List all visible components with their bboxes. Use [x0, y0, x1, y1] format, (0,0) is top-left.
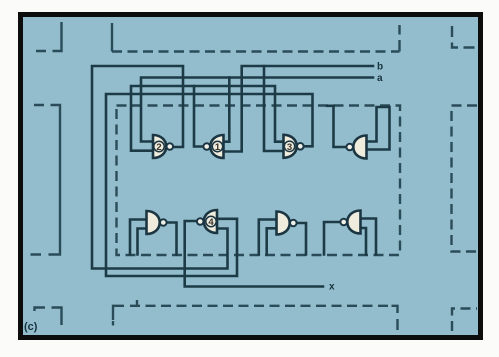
IC outline top-center (partial)	[111, 23, 113, 52]
unused gate bottom-4: tied inputs to outline	[361, 219, 377, 255]
svg-text:2: 2	[156, 142, 161, 153]
wire b branch to gate3 lower input	[264, 66, 284, 151]
svg-text:b: b	[377, 62, 383, 73]
svg-text:4: 4	[208, 217, 214, 228]
unused gate bottom-1: output to outline	[165, 223, 177, 255]
unused gate bottom-3 (faces right)	[277, 212, 297, 235]
svg-text:1: 1	[215, 142, 221, 153]
wire a branch to gate1 upper input	[224, 78, 230, 142]
IC outline bottom-center (partial)	[113, 306, 124, 320]
gate 1 label	[212, 141, 222, 153]
unused gate bottom-3: tied inputs to outline	[259, 220, 277, 255]
unused gate top-right (faces left)	[346, 136, 366, 159]
IC outline right-middle (partial)	[452, 106, 478, 252]
IC outline bottom-left (partial)	[35, 308, 62, 326]
gate 4 (NAND, bottom row 2nd, faces left)	[197, 210, 217, 233]
central IC outline (dashed rect around gates)	[117, 106, 401, 256]
unused gate bottom-1 (faces right)	[147, 211, 167, 234]
gate 2 label	[154, 141, 164, 153]
svg-text:x: x	[329, 282, 335, 293]
net G2-output: gate2 bubble up to top rail, down left side to bottom rail, to gate4 lower input	[92, 66, 228, 269]
svg-text:3: 3	[287, 142, 292, 153]
IC outline left-middle (partial)	[31, 105, 61, 255]
unused gate top-right: tied inputs loop	[367, 107, 390, 150]
net x: gate4 output to label x	[185, 221, 323, 287]
IC outline top-right (partial)	[452, 26, 477, 48]
net G3-output: bubble up to rail H4, down to bottom rail, to gate4 upper input	[106, 94, 313, 276]
unused gate bottom-4 (faces left)	[340, 211, 360, 234]
IC outline top-left (partial)	[36, 22, 62, 51]
IC outline bottom-right (partial)	[452, 309, 477, 332]
net G1-output: rail from gate2 lower input to gate3 upper input	[131, 86, 284, 151]
net b: top rail to gate1 lower input and gate3 lower input	[224, 66, 374, 152]
unused gate top-right: output stub to outline	[327, 106, 347, 147]
wire gate1 output riser joining G1-output rail	[194, 86, 204, 147]
unused gate bottom-3: output to outline	[295, 223, 306, 255]
gate 3 label	[284, 141, 294, 153]
svg-text:(c): (c)	[24, 321, 38, 333]
unused gate bottom-1: tied inputs to outline	[130, 220, 147, 255]
gate 2 (NAND, top row 1st, faces right)	[153, 135, 173, 158]
gate 3 (NAND, top row 3rd, faces right)	[284, 135, 304, 158]
gate 4 label	[206, 216, 216, 228]
net a: rail to gate2 upper input	[141, 78, 373, 142]
svg-text:a: a	[377, 73, 383, 84]
gate 1 (NAND, top row 2nd, faces left)	[203, 135, 223, 158]
unused gate bottom-4: output to outline	[324, 222, 339, 255]
